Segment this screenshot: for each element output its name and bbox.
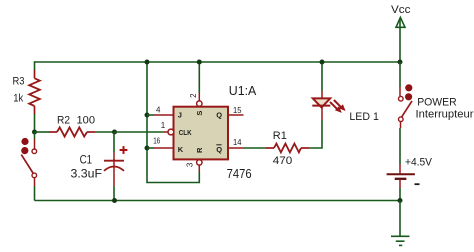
pin number 3 (rotated) <box>186 162 195 167</box>
wire battery to bottom rail <box>399 180 401 201</box>
svg-text:R3: R3 <box>13 76 25 88</box>
label U1:A <box>229 84 257 98</box>
label POWER <box>417 97 457 109</box>
node J junction dot (battery / bottom rail / ground) <box>398 198 403 203</box>
label LED 1 <box>349 111 379 123</box>
pin number 4 <box>156 106 161 115</box>
pin number 2 (rotated) <box>189 93 198 98</box>
wire Q pin 15 stub (unconnected) <box>228 114 244 116</box>
svg-text:R1: R1 <box>273 130 287 142</box>
wire junction A to switch SW1 <box>34 132 36 149</box>
svg-text:100: 100 <box>77 115 96 127</box>
svg-text:1: 1 <box>161 121 166 130</box>
resistor R2 <box>49 127 95 136</box>
svg-text:4: 4 <box>156 106 161 115</box>
svg-text:16: 16 <box>153 137 160 146</box>
pin number 16 <box>153 137 160 146</box>
resistor R3 <box>29 70 40 115</box>
svg-text:R: R <box>195 147 204 153</box>
svg-text:C1: C1 <box>80 153 93 167</box>
svg-text:K: K <box>178 145 184 154</box>
LED D1 <box>312 98 330 107</box>
LED D1 light arrows <box>330 100 346 113</box>
wire R2 to junction B <box>95 131 115 133</box>
label Vcc <box>391 4 411 16</box>
svg-text:R2: R2 <box>57 115 70 127</box>
svg-text:CLK: CLK <box>179 128 192 137</box>
switch SW2 POWER actuator dots <box>405 84 412 100</box>
value label 470 <box>273 155 293 167</box>
svg-text:2: 2 <box>189 93 198 98</box>
svg-text:LED 1: LED 1 <box>349 111 379 123</box>
wire C1 to bottom rail <box>113 186 115 201</box>
wire K pin stub <box>147 147 174 149</box>
node B junction dot (CLK / C1 branch) <box>112 130 117 135</box>
U1 pin label S (rotated) <box>195 111 204 116</box>
U1 pin label Q <box>216 111 222 120</box>
wire SW2 to battery <box>399 122 402 174</box>
C1 plus polarity mark <box>120 146 128 154</box>
value label 1k <box>13 93 23 105</box>
svg-text:Q: Q <box>216 111 222 120</box>
node A junction dot (left rail / R2 branch) <box>32 130 37 135</box>
label R2 <box>57 115 70 127</box>
value label 3.3uF <box>71 166 103 180</box>
wire pin14 to R1 <box>244 147 267 149</box>
U1 pin label CLK <box>179 128 192 137</box>
svg-text:15: 15 <box>233 106 242 115</box>
wire Q-bar pin 14 stub <box>228 147 244 149</box>
U1 pin label J <box>178 111 182 120</box>
wire LED anode to top rail <box>321 62 323 98</box>
resistor R1 <box>266 144 309 153</box>
svg-text:3.3uF: 3.3uF <box>71 166 103 180</box>
U1 pin label Q-bar <box>216 145 222 154</box>
battery BAT1 +4.5V <box>387 174 415 179</box>
U1 pin label R (rotated) <box>195 147 204 153</box>
wire junction A to R2 <box>35 131 50 133</box>
wire R1 to LED corner <box>309 120 322 148</box>
capacitor C1 (polarized) <box>104 159 124 186</box>
svg-text:J: J <box>178 111 182 120</box>
wire right rail to POWER switch <box>399 62 401 96</box>
wire R pin (clear bubble down to loop wire) <box>198 165 200 171</box>
svg-text:Vcc: Vcc <box>391 4 411 16</box>
node G junction dot (S pin on top rail) <box>197 60 202 65</box>
svg-text:14: 14 <box>233 138 242 147</box>
svg-text:U1:A: U1:A <box>229 84 257 98</box>
wire R3 to junction A <box>34 114 36 132</box>
wire switch SW1 to bottom rail <box>34 178 36 201</box>
svg-text:1k: 1k <box>13 93 23 105</box>
node I junction dot (Vcc / top rail / right rail) <box>398 60 403 65</box>
svg-text:POWER: POWER <box>417 97 457 109</box>
wire junction B to CLK bubble <box>115 131 168 133</box>
label C1 <box>80 153 93 167</box>
pin number 14 <box>233 138 242 147</box>
value label +4.5V <box>405 156 433 168</box>
svg-text:3: 3 <box>186 162 195 167</box>
svg-text:+4.5V: +4.5V <box>405 156 433 168</box>
switch SW1 (interactive actuator dots) <box>21 138 28 154</box>
U1 clear bubble (R) <box>197 160 202 165</box>
label Interrupteur <box>416 108 474 120</box>
U1 clock bubble (CLK) <box>168 129 174 135</box>
svg-text:470: 470 <box>273 155 293 167</box>
wire J pin stub <box>147 114 174 116</box>
svg-text:7476: 7476 <box>227 167 252 181</box>
op-amp U1 body: 7476 JK flip-flop <box>174 107 229 160</box>
label R1 <box>273 130 287 142</box>
pin number 1 <box>161 121 166 130</box>
node E junction dot (J branch) <box>145 113 150 118</box>
wire left vertical (top rail to R3) <box>34 61 36 70</box>
wire S pin (top rail down to preset bubble) <box>198 62 200 101</box>
wire top rail <box>35 61 401 63</box>
svg-text:Interrupteur: Interrupteur <box>416 108 474 120</box>
svg-text:Q: Q <box>216 145 222 154</box>
wire junction B down to C1 <box>113 132 115 160</box>
node H junction dot (LED on top rail) <box>320 60 325 65</box>
svg-text:S: S <box>195 111 204 116</box>
U1 pin label K <box>178 145 184 154</box>
wire LED cathode stub <box>321 106 323 120</box>
wire bottom rail <box>35 200 401 202</box>
label R3 <box>13 76 25 88</box>
Vcc power symbol <box>396 17 405 62</box>
wire bottom rail to ground <box>399 201 401 237</box>
switch SW1 body <box>21 149 36 178</box>
node F junction dot (K branch) <box>145 146 150 151</box>
node C junction dot (C1 on bottom rail) <box>112 198 117 203</box>
switch SW2 POWER body <box>399 96 413 121</box>
wire vertical feed x=147 (top rail to J/K and R loop) <box>147 62 199 183</box>
battery minus mark <box>415 183 420 185</box>
label 7476 <box>227 167 252 181</box>
pin number 15 <box>233 106 242 115</box>
U1 preset bubble (S) <box>197 101 202 106</box>
node D junction dot (top rail / x147) <box>145 60 150 65</box>
value label 100 <box>77 115 96 127</box>
ground <box>391 236 410 245</box>
